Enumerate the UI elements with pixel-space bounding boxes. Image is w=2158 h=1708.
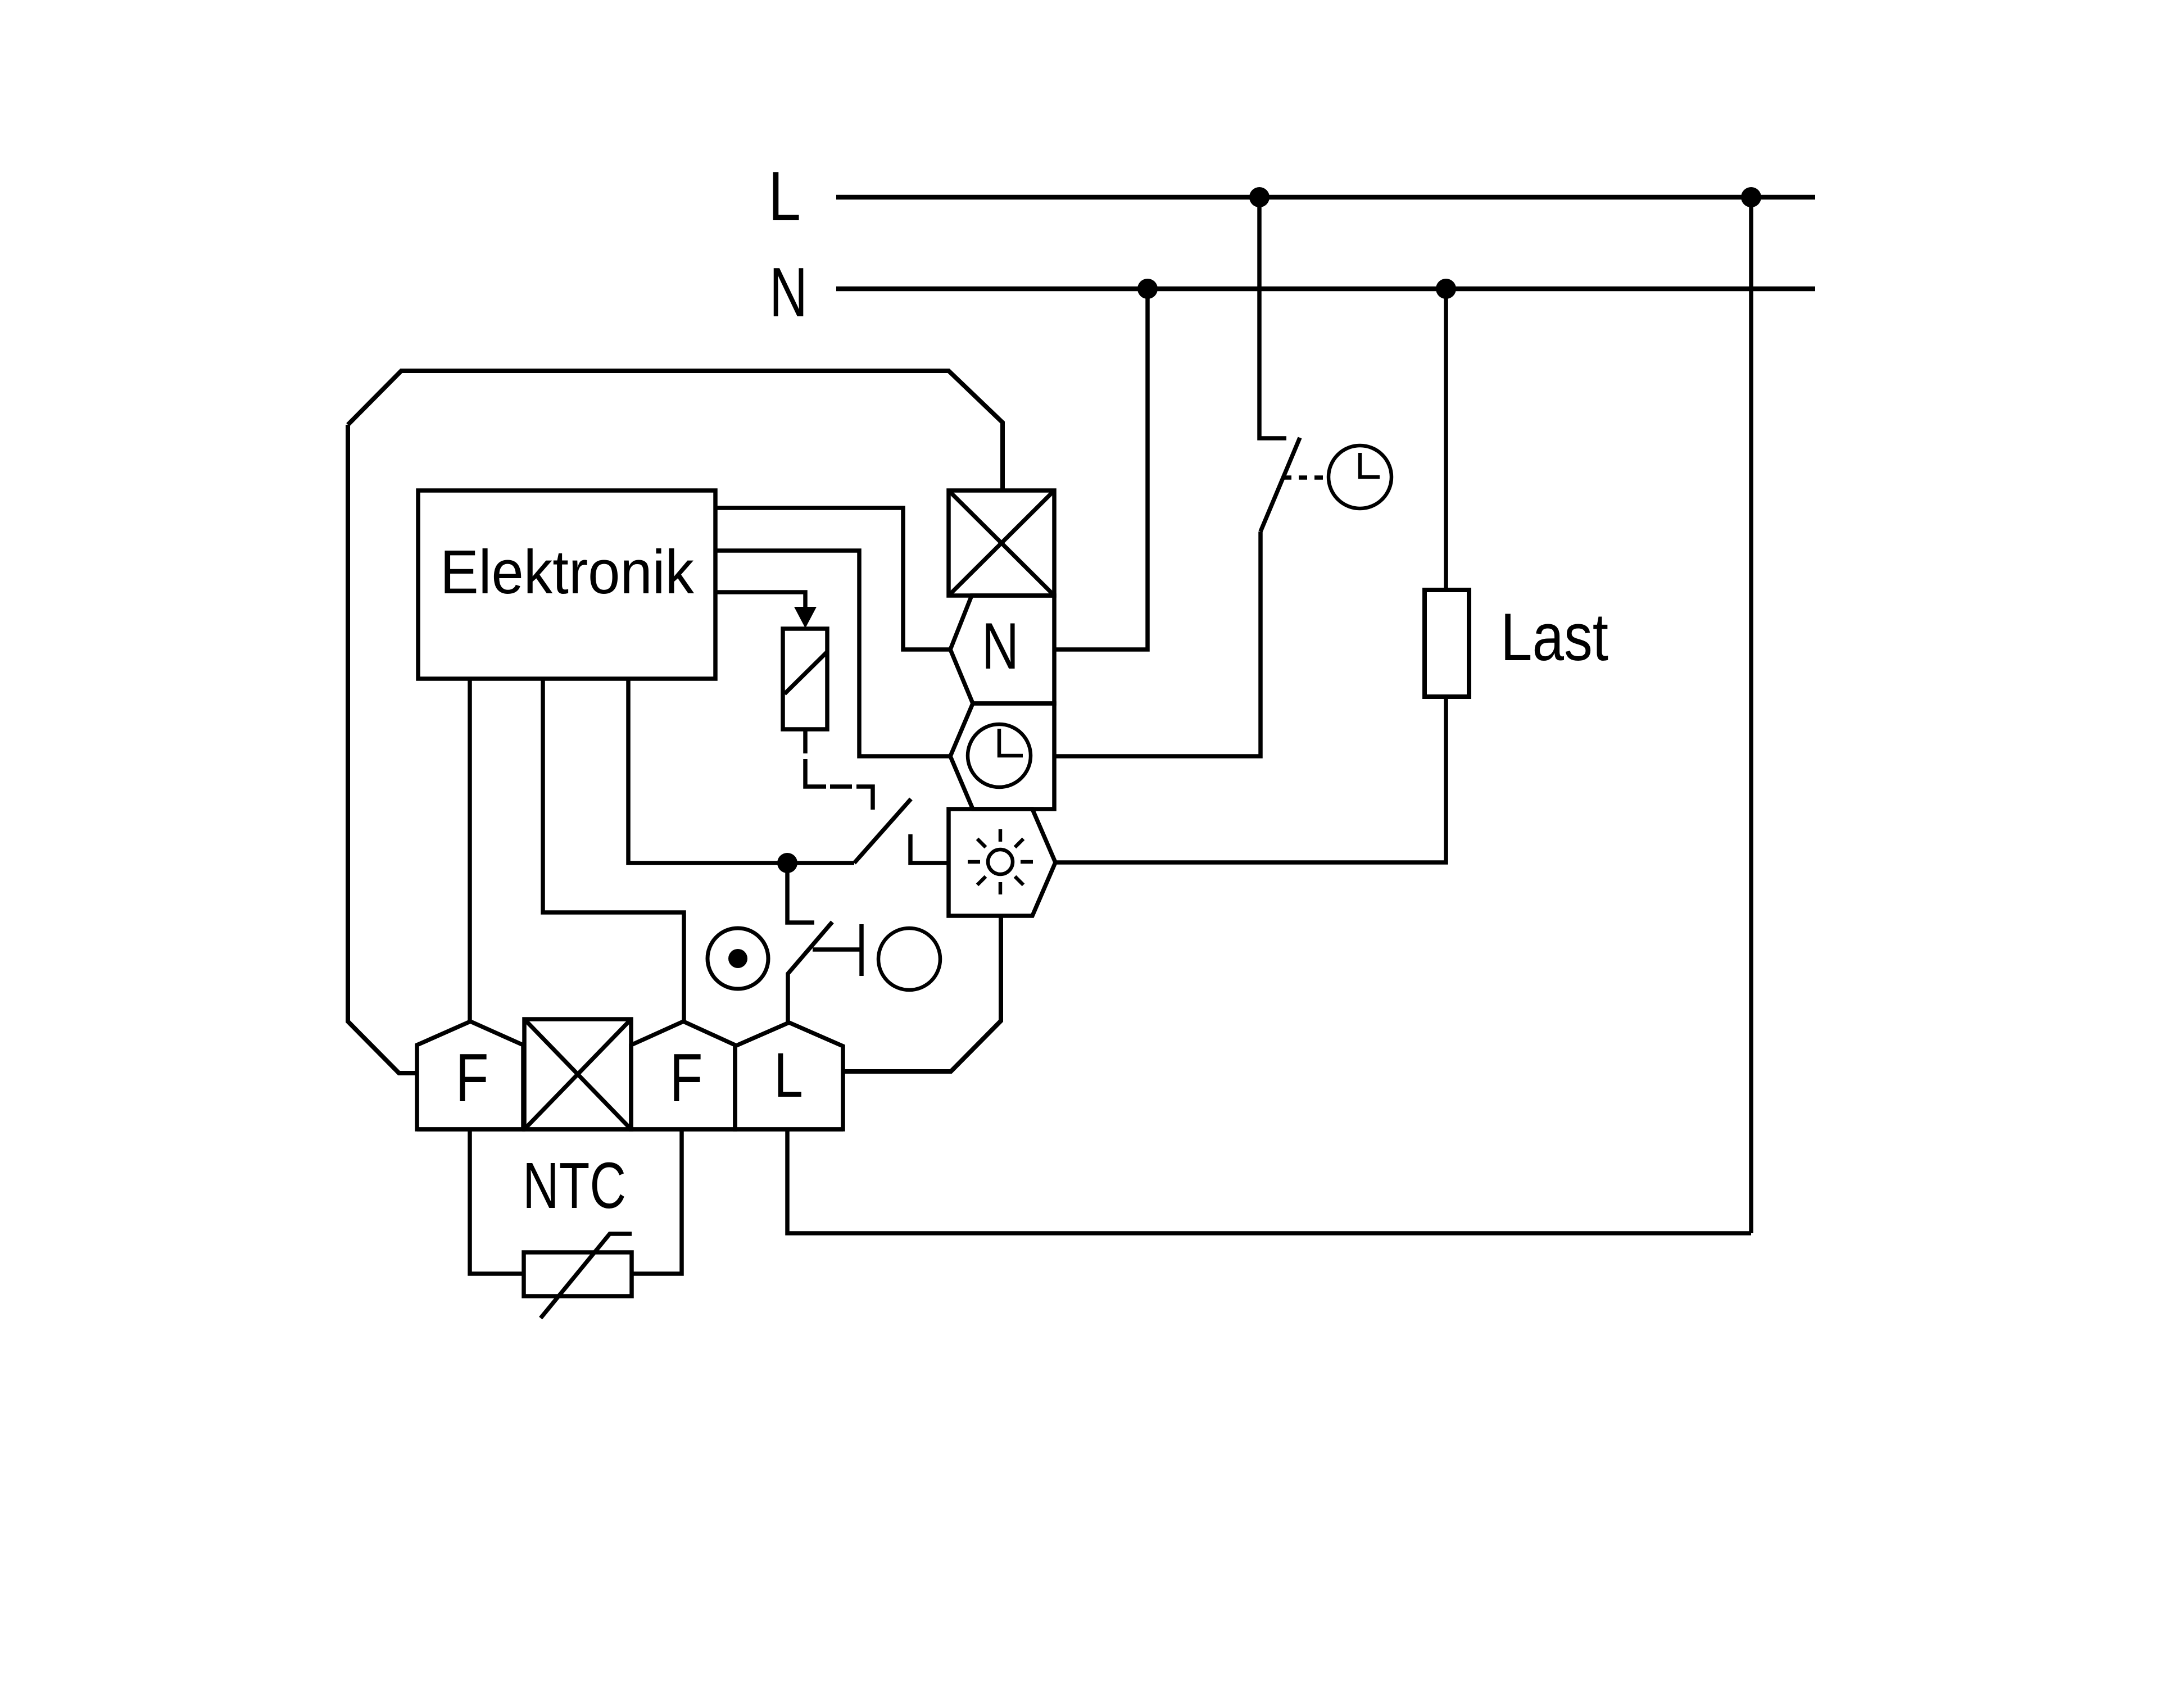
wire Elektronik bottom1 to F1 [468, 679, 472, 1021]
switch S3 timer blade [1261, 438, 1300, 532]
wire dashed control link [805, 759, 873, 810]
junction dot N1 [1137, 279, 1158, 299]
svg-text:F: F [670, 1039, 703, 1116]
wire N bus line [836, 287, 1815, 292]
switch S2 actuator link [813, 947, 860, 952]
terminal row bottom edge [417, 1127, 843, 1132]
device outline top [348, 371, 1003, 490]
junction dot switch [777, 853, 797, 873]
arrow head into resistor [794, 607, 817, 628]
svg-text:Elektronik: Elektronik [440, 538, 695, 607]
wire L bus line [836, 195, 1815, 200]
wire from N to terminal N [1054, 289, 1148, 649]
wire F1 to NTC [470, 1129, 524, 1274]
junction dot N2 [1436, 279, 1456, 299]
terminal F1 letter [456, 1039, 489, 1116]
wire timer to clock terminal [1054, 532, 1261, 756]
terminal N pentagon [950, 596, 1054, 703]
wire Elektronik bottom3 to switch [628, 679, 854, 863]
junction dot L1 [1249, 187, 1270, 207]
terminal X1 (lamp box) [949, 490, 1054, 596]
wire resistor bottom stub [803, 729, 808, 753]
terminal N letter [982, 609, 1019, 683]
switch S2 blade [788, 922, 832, 1023]
clock symbol timer [1329, 446, 1391, 508]
label Last [1500, 599, 1608, 675]
terminal clock symbol [968, 724, 1031, 787]
wire from N to load [1444, 289, 1448, 590]
svg-text:N: N [769, 254, 808, 331]
wire Elektronik out1 to terminal N [715, 508, 950, 649]
terminal F1 pentagon [417, 1021, 523, 1129]
wire junction to S2 contact [787, 863, 814, 923]
junction dot L2 [1741, 187, 1761, 207]
svg-text:F: F [456, 1039, 489, 1116]
resistor R (triac element) [783, 629, 827, 729]
wire L terminal to right rail [787, 1129, 1751, 1233]
label NTC [523, 1149, 626, 1222]
svg-text:N: N [982, 609, 1019, 683]
device outline left [348, 425, 417, 1073]
terminal sun symbol [968, 829, 1033, 894]
lamp circle [878, 928, 940, 990]
node L label [768, 158, 801, 235]
svg-text:Last: Last [1500, 599, 1608, 675]
terminal X2 (lamp box) [524, 1019, 631, 1129]
terminal L letter [774, 1040, 803, 1110]
wire Elektronik out3 to resistor arrow [715, 592, 805, 610]
box Elektronik [418, 490, 715, 679]
wire F2 to NTC [632, 1129, 682, 1274]
wire Elektronik out2 to terminal clock [715, 551, 950, 756]
switch S1 blade [854, 799, 911, 863]
terminal clock pentagon [950, 703, 1054, 809]
svg-text:L: L [774, 1040, 803, 1110]
label Elektronik [440, 538, 695, 607]
svg-text:L: L [768, 158, 801, 235]
terminal L pentagon [735, 1023, 843, 1129]
terminal F2 pentagon [631, 1021, 735, 1129]
terminal F2 letter [670, 1039, 703, 1116]
node N label [769, 254, 808, 331]
switch S1 fixed contact [910, 834, 949, 863]
wire from L down right side [1749, 197, 1753, 1233]
svg-text:NTC: NTC [523, 1149, 626, 1222]
wire Elektronik bottom2 to F2 [543, 679, 684, 1021]
wire from L to timer switch [1259, 197, 1286, 438]
terminal sun pentagon [949, 809, 1055, 916]
thermistor NTC [524, 1234, 632, 1318]
switch S2 contact bar [859, 924, 864, 976]
wire load to sun terminal [1055, 697, 1446, 862]
wire dashed timer link [1283, 475, 1327, 480]
load Last box [1425, 590, 1469, 697]
symbol manual actuator [708, 928, 768, 989]
device outline bottom right [843, 916, 1001, 1071]
